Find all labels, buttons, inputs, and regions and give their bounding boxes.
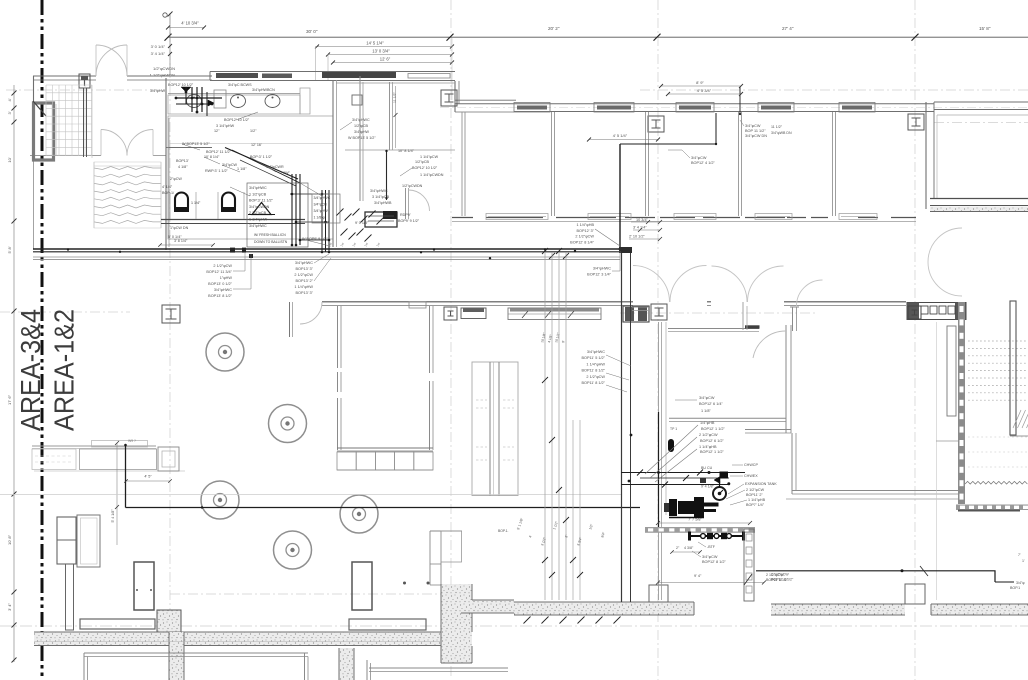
- svg-text:12": 12": [214, 129, 220, 133]
- svg-text:BOP:3' 1 1/2": BOP:3' 1 1/2": [250, 155, 273, 159]
- svg-text:BOP13' 0 1/2": BOP13' 0 1/2": [208, 282, 232, 286]
- svg-text:9' 0 1/8": 9' 0 1/8": [355, 221, 369, 225]
- svg-text:1 1/4"φHW: 1 1/4"φHW: [294, 285, 313, 289]
- svg-text:BOP13': BOP13': [176, 159, 189, 163]
- svg-text:RWP:3' 1 1/2": RWP:3' 1 1/2": [205, 169, 229, 173]
- svg-text:3/4"φHWC: 3/4"φHWC: [249, 186, 267, 190]
- svg-text:3/4"φHWB: 3/4"φHWB: [374, 201, 392, 205]
- svg-text:BOP12' 11 3/4": BOP12' 11 3/4": [206, 270, 232, 274]
- svg-text:20' 2": 20' 2": [548, 26, 560, 31]
- svg-text:3/4"φHWC: 3/4"φHWC: [249, 224, 267, 228]
- svg-text:27' 4": 27' 4": [782, 26, 794, 31]
- svg-text:2 1/2"φCW: 2 1/2"φCW: [771, 573, 789, 577]
- svg-text:5' 4 1/8": 5' 4 1/8": [111, 509, 115, 523]
- svg-text:BOP12' 4 1/2": BOP12' 4 1/2": [691, 161, 715, 165]
- svg-text:BOP12' 1 1/2": BOP12' 1 1/2": [700, 450, 724, 454]
- svg-text:2 1/2"φCW: 2 1/2"φCW: [575, 235, 594, 239]
- svg-text:3' 4 1/4": 3' 4 1/4": [151, 51, 166, 56]
- svg-text:CHWEX: CHWEX: [744, 474, 758, 478]
- svg-text:1/2"φCWDN: 1/2"φCWDN: [153, 66, 175, 71]
- svg-text:BU CU: BU CU: [701, 466, 713, 470]
- svg-text:10 3/4": 10 3/4": [636, 218, 649, 222]
- svg-text:1/4"φCWR: 1/4"φCWR: [266, 165, 284, 169]
- svg-text:BOP11' 8 1/2": BOP11' 8 1/2": [581, 381, 605, 385]
- svg-text:7': 7': [1018, 553, 1021, 557]
- svg-text:2 1/2"φCW: 2 1/2"φCW: [294, 273, 313, 277]
- svg-text:10': 10': [7, 157, 12, 162]
- svg-text:BOP12' 8 1/2": BOP12' 8 1/2": [702, 560, 726, 564]
- svg-text:2 1/2"φCB: 2 1/2"φCB: [249, 211, 267, 215]
- svg-text:10' 8 1/4": 10' 8 1/4": [204, 155, 220, 159]
- svg-text:3/4"φHWC: 3/4"φHWC: [295, 261, 313, 265]
- svg-text:BOP12' 10 1/2": BOP12' 10 1/2": [412, 166, 438, 170]
- svg-text:3/4"φCW: 3/4"φCW: [222, 163, 237, 167]
- svg-text:2' 10 1/2": 2' 10 1/2": [629, 235, 645, 239]
- svg-text:3/4"φHWC: 3/4"φHWC: [587, 350, 605, 354]
- svg-text:4' 5 1/4": 4' 5 1/4": [613, 133, 628, 138]
- svg-text:2 1/2"φCW: 2 1/2"φCW: [746, 488, 765, 492]
- svg-text:11 1/2": 11 1/2": [771, 125, 783, 129]
- svg-text:3/4"φCB: 3/4"φCB: [314, 203, 328, 207]
- svg-text:EXPANSION TANK: EXPANSION TANK: [745, 482, 777, 486]
- svg-text:1/2"φCWDN: 1/2"φCWDN: [402, 184, 423, 188]
- svg-text:3' 4": 3' 4": [7, 603, 12, 611]
- svg-text:1"φHW: 1"φHW: [220, 276, 233, 280]
- svg-text:2"φCW: 2"φCW: [170, 177, 182, 181]
- svg-text:3/4"φHW: 3/4"φHW: [314, 209, 329, 213]
- svg-text:RDP9': RDP9': [400, 213, 411, 217]
- svg-text:3/4"φCW DN: 3/4"φCW DN: [745, 134, 767, 138]
- svg-text:10" 8 1/4": 10" 8 1/4": [398, 149, 415, 153]
- svg-text:BOP12' 10 1/2": BOP12' 10 1/2": [224, 118, 250, 122]
- svg-text:1 1/4": 1 1/4": [191, 201, 201, 205]
- svg-text:BOP12' 10 1/2": BOP12' 10 1/2": [168, 83, 194, 87]
- svg-text:1/4"φHB: 1/4"φHB: [700, 421, 715, 425]
- svg-text:CHWCP: CHWCP: [744, 463, 758, 467]
- svg-text:1 1/8": 1 1/8": [701, 409, 711, 413]
- svg-text:13' 0 3/4": 13' 0 3/4": [372, 49, 390, 54]
- svg-text:2 1/2"φCW: 2 1/2"φCW: [213, 264, 232, 268]
- svg-text:W BOP9' 9 1/2": W BOP9' 9 1/2": [302, 237, 328, 241]
- svg-text:W/ FRESH BALLICN: W/ FRESH BALLICN: [254, 233, 286, 237]
- svg-text:BOP13' 3": BOP13' 3": [296, 291, 314, 295]
- svg-text:4 1/8": 4 1/8": [178, 165, 188, 169]
- svg-text:1 1/4"φHW: 1 1/4"φHW: [586, 362, 605, 366]
- svg-text:3 1/4"φCB: 3 1/4"φCB: [372, 195, 390, 199]
- svg-text:30' 0": 30' 0": [306, 29, 318, 34]
- svg-text:1': 1': [1022, 559, 1025, 563]
- svg-text:BOP.1.: BOP.1.: [498, 529, 509, 533]
- svg-text:1 1/4"φHW: 1 1/4"φHW: [249, 218, 268, 222]
- svg-text:BOP11' 8 1/2": BOP11' 8 1/2": [581, 369, 605, 373]
- svg-text:3/4"φCWDN: 3/4"φCWDN: [249, 205, 270, 209]
- svg-text:3/4"φHWC: 3/4"φHWC: [314, 196, 331, 200]
- svg-text:3/4"φCW: 3/4"φCW: [702, 555, 718, 559]
- svg-text:2 1/2"φCW: 2 1/2"φCW: [699, 433, 718, 437]
- svg-text:1/2"φCB: 1/2"φCB: [415, 160, 429, 164]
- svg-text:3/4"φHW: 3/4"φHW: [150, 89, 165, 93]
- svg-text:3' 8 1/4": 3' 8 1/4": [174, 239, 188, 243]
- svg-text:1 1/4"φHB: 1 1/4"φHB: [576, 223, 594, 227]
- svg-text:4': 4': [7, 98, 12, 101]
- svg-text:1 0W": 1 0W": [280, 171, 291, 175]
- svg-text:BOP11' 8 1/2": BOP11' 8 1/2": [771, 578, 794, 582]
- svg-text:7' 7 5/8": 7' 7 5/8": [688, 518, 702, 522]
- svg-text:11 1/2": 11 1/2": [393, 92, 397, 103]
- svg-text:AREA-3&4: AREA-3&4: [15, 309, 46, 431]
- svg-text:10' 8": 10' 8": [7, 534, 12, 545]
- svg-text:2 1/2"φCW: 2 1/2"φCW: [586, 375, 605, 379]
- svg-text:4 3/8": 4 3/8": [684, 546, 694, 550]
- svg-text:1 1/2"φHWDN: 1 1/2"φHWDN: [150, 73, 175, 78]
- svg-text:5' 8': 5' 8': [7, 246, 12, 253]
- svg-text:3/4"φHWC: 3/4"φHWC: [370, 189, 388, 193]
- svg-text:1"φCW DN: 1"φCW DN: [170, 226, 189, 230]
- svg-text:1 1/4"φHB: 1 1/4"φHB: [699, 445, 717, 449]
- svg-text:9' 4 1/8": 9' 4 1/8": [701, 485, 715, 489]
- svg-text:3/4"φHWC: 3/4"φHWC: [352, 118, 370, 122]
- svg-text:BOP13' 2": BOP13' 2": [296, 279, 314, 283]
- svg-text:-BTF: -BTF: [707, 545, 716, 549]
- svg-text:12' 6": 12' 6": [380, 57, 391, 62]
- svg-text:1 1/4"φHB: 1 1/4"φHB: [748, 498, 766, 502]
- svg-text:4' 10 3/4": 4' 10 3/4": [181, 21, 199, 26]
- svg-text:BOP12' 3 1/4": BOP12' 3 1/4": [587, 273, 611, 277]
- svg-text:BOP9' 9 1/2": BOP9' 9 1/2": [398, 219, 420, 223]
- svg-text:1 1/4"φCW: 1 1/4"φCW: [420, 155, 439, 159]
- svg-text:1 1/8": 1 1/8": [237, 167, 247, 171]
- svg-text:1 1/8"φ: 1 1/8"φ: [314, 216, 326, 220]
- svg-text:3/4"φCW: 3/4"φCW: [699, 396, 715, 400]
- svg-text:3 1/4"φHW: 3 1/4"φHW: [216, 124, 235, 128]
- svg-text:3/4"φHWBCN: 3/4"φHWBCN: [252, 88, 275, 92]
- svg-text:BOP7' 1/4": BOP7' 1/4": [746, 503, 765, 507]
- svg-text:BOP12' 8 1/4": BOP12' 8 1/4": [570, 240, 594, 244]
- svg-text:W9 ?: W9 ?: [128, 439, 136, 443]
- svg-text:15' 8": 15' 8": [979, 26, 991, 31]
- svg-text:4' 1/4": 4' 1/4": [162, 185, 173, 189]
- svg-text:AREA-1&2: AREA-1&2: [49, 309, 80, 431]
- svg-text:BOP:3' 11 1/2": BOP:3' 11 1/2": [249, 199, 274, 203]
- svg-text:3/4"φ: 3/4"φ: [1016, 581, 1025, 585]
- svg-text:3/4"φHWC: 3/4"φHWC: [214, 288, 232, 292]
- svg-text:14' 5 1/4": 14' 5 1/4": [366, 41, 384, 46]
- svg-text:BOP.1: BOP.1: [1010, 586, 1020, 590]
- svg-text:DOWN TO BALLISTN: DOWN TO BALLISTN: [254, 240, 288, 244]
- svg-text:BOP13' 8 1/2": BOP13' 8 1/2": [208, 294, 232, 298]
- svg-text:W BOP13' 5 1/2": W BOP13' 5 1/2": [348, 136, 376, 140]
- svg-text:3/4"φC BCWS: 3/4"φC BCWS: [228, 83, 252, 87]
- svg-text:BOP11' 5 1/2": BOP11' 5 1/2": [581, 356, 605, 360]
- svg-text:12' 16': 12' 16': [251, 143, 262, 147]
- svg-text:3/4"φCW: 3/4"φCW: [745, 124, 761, 128]
- svg-text:3' 4 1/4": 3' 4 1/4": [633, 226, 647, 230]
- svg-text:4' 5": 4' 5": [144, 475, 152, 479]
- svg-text:BOP12' 11 1/2": BOP12' 11 1/2": [206, 150, 232, 154]
- svg-text:3/4"φCW: 3/4"φCW: [691, 156, 707, 160]
- svg-text:5' 0 1/4": 5' 0 1/4": [168, 235, 182, 239]
- svg-text:BOP11' 2": BOP11' 2": [746, 493, 763, 497]
- svg-text:8' 9": 8' 9": [696, 80, 704, 85]
- svg-text:3/4"φHW: 3/4"φHW: [354, 130, 369, 134]
- svg-text:3': 3': [7, 111, 12, 114]
- svg-text:BOP12' 6 1/4": BOP12' 6 1/4": [699, 402, 723, 406]
- svg-text:TP 1: TP 1: [670, 427, 677, 431]
- svg-text:BOP 11 1/2": BOP 11 1/2": [745, 129, 766, 133]
- svg-text:17' 6": 17' 6": [7, 394, 12, 405]
- svg-text:4' 5 3/4": 4' 5 3/4": [697, 88, 712, 93]
- svg-text:BOP12' 1 1/2": BOP12' 1 1/2": [701, 427, 725, 431]
- svg-text:1/2"φCB: 1/2"φCB: [354, 124, 368, 128]
- svg-text:3/4"φHWC: 3/4"φHWC: [593, 267, 611, 271]
- svg-text:BOP12' 3": BOP12' 3": [577, 229, 595, 233]
- svg-text:1 1/2"φCB: 1 1/2"φCB: [249, 192, 267, 196]
- svg-text:1 1/4"φCWDN: 1 1/4"φCWDN: [420, 173, 444, 177]
- svg-text:BOP13' 3": BOP13' 3": [296, 267, 314, 271]
- svg-text:BOP-1/: BOP-1/: [162, 191, 175, 195]
- svg-text:3/4"φWB DN: 3/4"φWB DN: [771, 131, 792, 135]
- svg-text:9' 4": 9' 4": [694, 574, 702, 578]
- svg-text:3' 0 1/4": 3' 0 1/4": [151, 44, 166, 49]
- svg-text:1/2": 1/2": [250, 129, 257, 133]
- svg-text:BOP12' 6 1/2": BOP12' 6 1/2": [700, 439, 724, 443]
